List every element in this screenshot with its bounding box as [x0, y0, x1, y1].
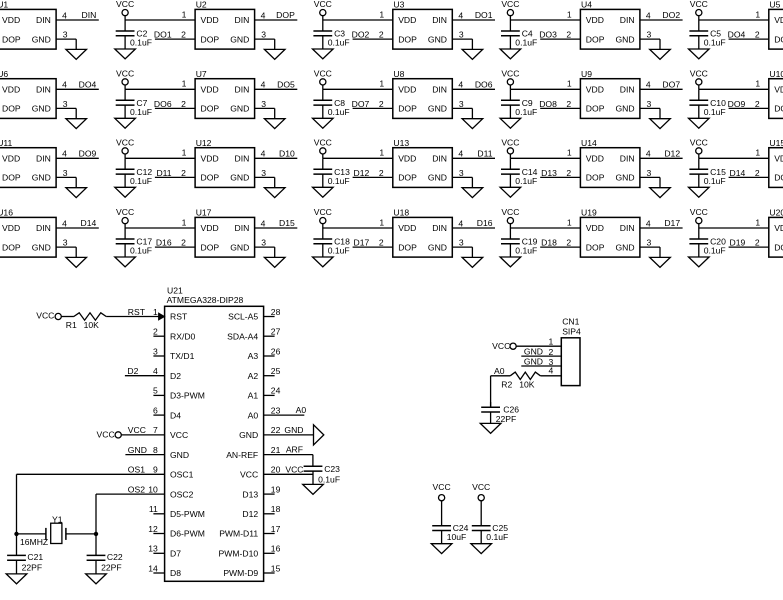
svg-text:18: 18: [271, 504, 281, 514]
svg-text:D16: D16: [156, 238, 172, 248]
svg-text:DO9: DO9: [728, 99, 746, 109]
svg-text:DO3: DO3: [539, 30, 557, 40]
svg-text:VCC: VCC: [690, 0, 708, 9]
svg-text:2: 2: [379, 168, 384, 178]
wire U12 pin 4 to net D10: [255, 148, 298, 158]
ground (C9): [500, 118, 521, 128]
svg-text:GND: GND: [230, 242, 249, 252]
svg-text:1: 1: [379, 79, 384, 89]
svg-text:GND: GND: [284, 425, 303, 435]
wire net DO2 to U3 pin 2: [352, 30, 393, 40]
power VCC (U13 cell): [314, 138, 332, 154]
svg-text:DOP: DOP: [2, 104, 21, 114]
ground (C12): [115, 187, 136, 197]
svg-text:PWM-D10: PWM-D10: [219, 549, 259, 559]
svg-text:VDD: VDD: [201, 154, 219, 164]
svg-text:0.1uF: 0.1uF: [328, 246, 350, 256]
U21 unconnected right pin stubs (pins 28..24, 19..15): [264, 317, 275, 574]
svg-text:U17: U17: [196, 208, 212, 218]
power VCC (U21 pin 7): [97, 430, 122, 440]
svg-text:A3: A3: [248, 351, 259, 361]
ground (U8 pin 3): [462, 119, 483, 129]
svg-text:U7: U7: [196, 69, 207, 79]
svg-text:U9: U9: [581, 69, 592, 79]
IC U2 (LED driver): [181, 0, 266, 49]
svg-text:4: 4: [458, 10, 463, 20]
svg-text:DIN: DIN: [234, 15, 249, 25]
capacitor C13 0.1uF: [313, 158, 350, 187]
svg-text:VCC: VCC: [501, 69, 519, 79]
svg-text:0.1uF: 0.1uF: [318, 474, 340, 484]
svg-text:3: 3: [63, 238, 68, 248]
svg-text:OS2: OS2: [128, 484, 145, 494]
svg-text:DO1: DO1: [475, 10, 493, 20]
svg-text:VDD: VDD: [2, 154, 20, 164]
wire VCC to U2 pin 1: [125, 16, 195, 20]
svg-text:0.1uF: 0.1uF: [704, 38, 726, 48]
ground (C10): [689, 118, 710, 128]
svg-text:RST: RST: [128, 307, 146, 317]
svg-text:DOP: DOP: [2, 34, 21, 44]
wire VCC to U19 pin 1: [510, 224, 580, 228]
ground (C21): [6, 574, 27, 584]
wire U9 pin 3 to ground: [640, 108, 660, 118]
svg-text:2: 2: [181, 99, 186, 109]
svg-text:DIN: DIN: [36, 154, 51, 164]
svg-text:DOP: DOP: [276, 10, 295, 20]
wire R1 to U21 pin 1, net RST: [106, 307, 164, 320]
svg-text:DO6: DO6: [154, 99, 172, 109]
svg-text:D8: D8: [170, 568, 181, 578]
svg-text:GND: GND: [428, 104, 447, 114]
svg-text:GND: GND: [615, 34, 634, 44]
svg-text:GND: GND: [428, 173, 447, 183]
IC U4 (LED driver): [566, 0, 651, 49]
ground (U4 pin 3): [650, 49, 671, 59]
svg-text:D11: D11: [156, 168, 171, 178]
svg-text:3: 3: [647, 238, 652, 248]
svg-text:VDD: VDD: [398, 223, 416, 233]
svg-text:GND: GND: [32, 242, 51, 252]
svg-text:VCC: VCC: [240, 470, 258, 480]
ground (C26): [480, 423, 501, 433]
ground (C24): [431, 544, 452, 554]
svg-text:22PF: 22PF: [496, 414, 517, 424]
svg-text:GND: GND: [32, 173, 51, 183]
svg-text:16: 16: [271, 544, 281, 554]
svg-text:VDD: VDD: [2, 15, 20, 25]
IC U18 (LED driver): [379, 208, 464, 258]
svg-text:R2: R2: [501, 379, 512, 389]
power VCC (C25): [472, 482, 490, 501]
svg-text:U6: U6: [0, 69, 8, 79]
svg-text:VDD: VDD: [201, 223, 219, 233]
svg-text:3: 3: [261, 238, 266, 248]
wire VCC to U5 pin 1: [699, 16, 769, 20]
capacitor C24 10uF: [432, 501, 468, 544]
svg-text:SIP4: SIP4: [562, 326, 581, 336]
wire VCC-R1: [61, 316, 74, 318]
IC U6 (LED driver): [0, 69, 68, 118]
svg-text:9: 9: [153, 465, 158, 475]
svg-text:3: 3: [647, 99, 652, 109]
power VCC (U7 cell): [116, 69, 134, 86]
svg-text:1: 1: [755, 148, 760, 158]
svg-text:24: 24: [271, 386, 281, 396]
svg-text:2: 2: [549, 347, 554, 357]
ground (U14 pin 3): [650, 188, 671, 198]
wire U4 pin 3 to ground: [640, 39, 660, 49]
ground (C19): [500, 257, 521, 267]
wire U4 pin 4 to net DO2: [640, 10, 683, 20]
IC U3 (LED driver): [379, 0, 464, 49]
svg-text:U4: U4: [581, 0, 592, 10]
svg-text:4: 4: [646, 218, 651, 228]
svg-text:1: 1: [182, 217, 187, 227]
svg-text:Y1: Y1: [52, 514, 63, 524]
wire net DO4 to U5 pin 2: [728, 30, 769, 40]
svg-text:VCC: VCC: [314, 207, 332, 217]
power VCC (C24): [433, 482, 451, 501]
wire net GND to CN1 pin 3: [521, 357, 561, 367]
svg-text:DOP: DOP: [2, 173, 21, 183]
svg-text:DOP: DOP: [586, 104, 605, 114]
power VCC (U5 cell): [690, 0, 708, 16]
svg-text:DO7: DO7: [662, 79, 680, 89]
capacitor C2 0.1uF: [116, 20, 152, 49]
wire U11 pin 4 to net DO9: [56, 148, 99, 158]
svg-text:VCC: VCC: [314, 0, 332, 9]
svg-text:4: 4: [646, 10, 651, 20]
ground (U3 pin 3): [462, 49, 483, 59]
svg-text:2: 2: [566, 168, 571, 178]
wire VCC to U14 pin 1: [510, 154, 580, 158]
svg-text:DIN: DIN: [36, 85, 51, 95]
wire VCC to U10 pin 1: [699, 85, 769, 89]
svg-text:VDD: VDD: [2, 85, 20, 95]
svg-text:D7: D7: [170, 549, 181, 559]
svg-text:27: 27: [271, 327, 281, 337]
power VCC (CN1 pin 1): [492, 341, 516, 351]
wire net D19 to U20 pin 2: [729, 238, 769, 248]
capacitor C19 0.1uF: [501, 228, 538, 257]
svg-text:DOP: DOP: [774, 34, 783, 44]
wire U9 pin 4 to net DO7: [640, 79, 683, 89]
capacitor C23 0.1uF: [304, 464, 341, 485]
svg-text:0.1uF: 0.1uF: [130, 176, 152, 186]
wire U18 pin 4 to net D16: [452, 218, 495, 228]
wire net GND to CN1 pin 2: [521, 347, 561, 357]
svg-text:RST: RST: [170, 312, 188, 322]
svg-text:1: 1: [182, 9, 187, 19]
svg-text:SCL-A5: SCL-A5: [228, 312, 258, 322]
ground (C5): [689, 49, 710, 59]
svg-text:4: 4: [646, 149, 651, 159]
ground (C8): [313, 118, 334, 128]
wire net DO3 to U4 pin 2: [539, 30, 580, 40]
capacitor C4 0.1uF: [501, 20, 537, 49]
svg-text:DOP: DOP: [398, 242, 417, 252]
svg-text:SDA-A4: SDA-A4: [227, 331, 258, 341]
svg-text:VCC: VCC: [433, 482, 451, 492]
svg-text:D12: D12: [242, 509, 258, 519]
power VCC (U14 cell): [501, 138, 519, 154]
svg-text:1: 1: [182, 79, 187, 89]
power VCC (U4 cell): [501, 0, 519, 16]
svg-text:D12: D12: [664, 148, 680, 158]
wire U14 pin 3 to ground: [640, 177, 660, 187]
svg-text:VDD: VDD: [201, 85, 219, 95]
svg-text:DIN: DIN: [234, 85, 249, 95]
ground (U17 pin 3): [264, 257, 285, 267]
node junction left of Y1: [14, 532, 18, 536]
ground (U16 pin 3): [66, 257, 87, 267]
svg-text:0.1uF: 0.1uF: [328, 107, 350, 117]
wire U2 pin 3 to ground: [255, 39, 275, 49]
capacitor C9 0.1uF: [501, 89, 537, 118]
svg-text:U2: U2: [196, 0, 207, 10]
svg-text:3: 3: [459, 30, 464, 40]
ground (C17): [115, 257, 136, 267]
svg-text:1: 1: [755, 79, 760, 89]
svg-text:D5-PWM: D5-PWM: [170, 509, 205, 519]
svg-text:DOP: DOP: [201, 34, 220, 44]
svg-text:17: 17: [271, 524, 281, 534]
wire VCC to U15 pin 1: [699, 154, 769, 158]
power VCC (U10 cell): [690, 69, 708, 86]
svg-text:OSC1: OSC1: [170, 470, 194, 480]
wire net D12 to U13 pin 2: [353, 168, 393, 178]
IC U17 (LED driver): [181, 208, 266, 258]
svg-text:DO5: DO5: [277, 79, 295, 89]
svg-text:0.1uF: 0.1uF: [515, 176, 537, 186]
svg-text:4: 4: [458, 149, 463, 159]
svg-text:CN1: CN1: [562, 316, 579, 326]
svg-text:21: 21: [271, 445, 281, 455]
wire U1 pin 3 to ground: [56, 39, 76, 49]
ground (C3): [313, 49, 334, 59]
svg-text:1: 1: [567, 79, 572, 89]
svg-text:10K: 10K: [519, 379, 535, 389]
svg-text:2: 2: [755, 99, 760, 109]
svg-text:3: 3: [459, 238, 464, 248]
svg-text:3: 3: [647, 30, 652, 40]
wire net D2 to U21 pin 4: [125, 366, 165, 376]
power VCC (U19 cell): [501, 207, 519, 224]
ground flag (pin 22): [314, 425, 324, 445]
svg-text:TX/D1: TX/D1: [170, 351, 195, 361]
svg-text:U5: U5: [769, 0, 780, 10]
svg-text:U11: U11: [0, 138, 13, 148]
wire net DO9 to U10 pin 2: [728, 99, 769, 109]
svg-text:U3: U3: [393, 0, 404, 10]
svg-text:DIN: DIN: [432, 15, 447, 25]
wire net OS1 to U21 pin 9: [17, 465, 165, 534]
capacitor C5 0.1uF: [689, 20, 725, 49]
ground (C7): [115, 118, 136, 128]
svg-text:2: 2: [566, 99, 571, 109]
svg-text:10K: 10K: [84, 320, 100, 330]
svg-text:0.1uF: 0.1uF: [130, 38, 152, 48]
svg-text:U10: U10: [769, 69, 783, 79]
svg-text:VDD: VDD: [586, 15, 604, 25]
wire VCC to U9 pin 1: [510, 85, 580, 89]
svg-text:19: 19: [271, 484, 281, 494]
ground (C22): [86, 574, 107, 584]
power VCC (U15 cell): [690, 138, 708, 154]
svg-text:4: 4: [458, 80, 463, 90]
capacitor C7 0.1uF: [116, 89, 152, 118]
wire U19 pin 3 to ground: [640, 247, 660, 257]
ground (C4): [500, 49, 521, 59]
svg-text:C23: C23: [324, 464, 340, 474]
svg-text:4: 4: [153, 366, 158, 376]
svg-text:10uF: 10uF: [447, 532, 467, 542]
svg-text:GND: GND: [428, 242, 447, 252]
svg-text:2: 2: [755, 168, 760, 178]
svg-text:OS1: OS1: [128, 465, 145, 475]
svg-text:VDD: VDD: [586, 154, 604, 164]
svg-text:2: 2: [181, 168, 186, 178]
svg-text:3: 3: [459, 99, 464, 109]
svg-text:DO4: DO4: [728, 30, 746, 40]
svg-text:R1: R1: [66, 320, 77, 330]
svg-text:D10: D10: [279, 148, 295, 158]
wire U8 pin 3 to ground: [452, 108, 472, 118]
svg-text:A1: A1: [248, 391, 259, 401]
svg-text:D15: D15: [279, 218, 295, 228]
svg-text:0.1uF: 0.1uF: [328, 176, 350, 186]
capacitor C21 22PF: [7, 534, 43, 574]
svg-text:7: 7: [153, 425, 158, 435]
svg-text:VCC: VCC: [116, 207, 134, 217]
svg-text:VDD: VDD: [586, 85, 604, 95]
IC U20 (LED driver): [755, 208, 783, 258]
ground (U13 pin 3): [462, 188, 483, 198]
wire net GND to U21 pin 8: [125, 445, 164, 455]
wire U8 pin 4 to net DO6: [452, 79, 495, 89]
svg-text:U12: U12: [196, 138, 212, 148]
svg-text:D16: D16: [477, 218, 493, 228]
wire U17 pin 4 to net D15: [255, 218, 298, 228]
svg-text:DOP: DOP: [2, 242, 21, 252]
svg-text:VCC: VCC: [690, 138, 708, 148]
ground (C18): [313, 257, 334, 267]
svg-text:VCC: VCC: [472, 482, 490, 492]
svg-text:GND: GND: [170, 450, 189, 460]
wire U12 pin 3 to ground: [255, 177, 275, 187]
svg-text:DIN: DIN: [81, 10, 96, 20]
wire net D17 to U18 pin 2: [353, 238, 393, 248]
ground (C20): [689, 257, 710, 267]
capacitor C15 0.1uF: [689, 158, 726, 187]
svg-text:D11: D11: [477, 148, 492, 158]
IC U13 (LED driver): [379, 138, 464, 188]
svg-text:DIN: DIN: [620, 15, 635, 25]
ground (C15): [689, 187, 710, 197]
svg-text:OSC2: OSC2: [170, 489, 194, 499]
wire net DO7 to U8 pin 2: [352, 99, 393, 109]
power VCC (U20 cell): [690, 207, 708, 224]
svg-text:23: 23: [271, 405, 281, 415]
svg-text:VCC: VCC: [97, 430, 115, 440]
svg-text:U14: U14: [581, 138, 597, 148]
svg-text:0.1uF: 0.1uF: [704, 246, 726, 256]
svg-text:28: 28: [271, 307, 281, 317]
wire net DO6 to U7 pin 2: [154, 99, 195, 109]
node junction right of Y1: [94, 532, 98, 536]
svg-text:A0: A0: [296, 405, 307, 415]
wire U21 pin 20 net VCC: [264, 464, 313, 474]
wire VCC to U17 pin 1: [125, 224, 195, 228]
wire VCC to U4 pin 1: [510, 16, 580, 20]
IC U16 (LED driver): [0, 208, 68, 258]
svg-text:DO1: DO1: [154, 30, 172, 40]
svg-text:4: 4: [646, 80, 651, 90]
svg-text:16MHZ: 16MHZ: [20, 537, 48, 547]
svg-text:D2: D2: [170, 371, 181, 381]
svg-text:VCC: VCC: [501, 0, 519, 9]
svg-text:DOP: DOP: [398, 173, 417, 183]
svg-text:4: 4: [62, 149, 67, 159]
svg-text:PWM-D11: PWM-D11: [219, 529, 258, 539]
svg-text:D13: D13: [541, 168, 557, 178]
capacitor C20 0.1uF: [689, 228, 726, 257]
svg-text:4: 4: [458, 218, 463, 228]
svg-text:0.1uF: 0.1uF: [328, 38, 350, 48]
svg-text:VCC: VCC: [690, 207, 708, 217]
power VCC (U2 cell): [116, 0, 134, 16]
svg-text:C21: C21: [27, 552, 43, 562]
svg-text:DOP: DOP: [774, 104, 783, 114]
svg-text:DIN: DIN: [432, 223, 447, 233]
svg-text:1: 1: [567, 9, 572, 19]
capacitor C12 0.1uF: [116, 158, 153, 187]
wire VCC to U21 pin 7: [121, 425, 164, 435]
svg-text:DIN: DIN: [620, 223, 635, 233]
svg-text:0.1uF: 0.1uF: [704, 176, 726, 186]
svg-text:U21: U21: [167, 285, 183, 295]
svg-text:3: 3: [261, 168, 266, 178]
svg-text:0.1uF: 0.1uF: [515, 246, 537, 256]
svg-text:VCC: VCC: [116, 69, 134, 79]
svg-text:ATMEGA328-DIP28: ATMEGA328-DIP28: [167, 295, 244, 305]
power VCC (R1): [36, 310, 61, 320]
svg-text:4: 4: [62, 218, 67, 228]
IC U14 (LED driver): [566, 138, 651, 188]
svg-text:DIN: DIN: [620, 154, 635, 164]
svg-text:3: 3: [261, 30, 266, 40]
svg-text:AN-REF: AN-REF: [226, 450, 258, 460]
wire net DO8 to U9 pin 2: [539, 99, 580, 109]
svg-text:4: 4: [261, 218, 266, 228]
ground (U2 pin 3): [264, 49, 285, 59]
IC U9 (LED driver): [566, 69, 651, 118]
power VCC (U8 cell): [314, 69, 332, 86]
svg-text:4: 4: [261, 10, 266, 20]
power VCC (U3 cell): [314, 0, 332, 16]
wire VCC to U13 pin 1: [323, 154, 393, 158]
svg-text:2: 2: [566, 30, 571, 40]
svg-text:2: 2: [181, 238, 186, 248]
svg-text:3: 3: [647, 168, 652, 178]
svg-text:15: 15: [271, 563, 281, 573]
svg-text:U18: U18: [393, 208, 409, 218]
ground (C23): [303, 484, 324, 494]
svg-text:U19: U19: [581, 208, 597, 218]
svg-text:10: 10: [148, 484, 158, 494]
svg-text:0.1uF: 0.1uF: [130, 246, 152, 256]
